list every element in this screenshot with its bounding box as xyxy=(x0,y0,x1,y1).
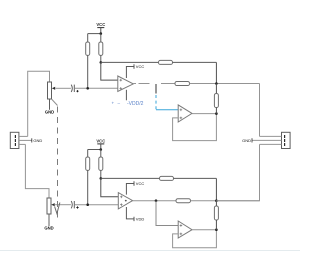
pin marks J2 xyxy=(284,135,286,146)
label VCC at U1A xyxy=(134,64,144,69)
blue edit text (net label being edited) xyxy=(112,101,144,108)
svg-text:GND: GND xyxy=(44,226,53,231)
mechanical link (dual pot, dashed) xyxy=(52,99,58,106)
wire right connector pin3 down to output rail ch2 xyxy=(216,144,259,200)
center dot U1B xyxy=(125,200,127,202)
capacitor C2 xyxy=(71,201,74,208)
wire bias rail ch2 xyxy=(101,177,160,179)
wire R1 top stub xyxy=(87,34,89,42)
wire vertical resistor top stub ch2 xyxy=(215,201,217,206)
op-amp U1B ch2 xyxy=(118,193,132,209)
wire input pot ch2 xyxy=(25,144,49,198)
wire bias rail ch1 xyxy=(101,61,159,63)
wire R2 top stub xyxy=(100,34,102,42)
wire J2 pin1 xyxy=(260,135,282,137)
resistor R9 (vertical ch2) xyxy=(214,206,218,220)
wire top of divider ch2 xyxy=(88,149,101,151)
wire corner down to output rail ch2 xyxy=(215,178,217,200)
output rail ch2 xyxy=(133,200,176,202)
output rail ch1 right part xyxy=(190,83,260,85)
label VCC at U1B xyxy=(134,181,144,186)
wire J2 pin3 xyxy=(260,143,282,145)
resistor R4 (vertical ch1) xyxy=(214,94,218,108)
wire R7 top stub xyxy=(100,150,102,158)
GND flag right xyxy=(242,138,252,143)
svg-text:-VDD/2: -VDD/2 xyxy=(127,101,144,107)
power symbol VCC (top, channel 1) xyxy=(96,22,105,33)
power pin bottom U1A xyxy=(125,90,127,101)
selected wire (blue dashed) xyxy=(155,95,157,110)
wire top of divider ch1 xyxy=(88,33,101,35)
resistor R6 (left divider ch2) xyxy=(86,157,90,170)
svg-text:VCC: VCC xyxy=(96,22,105,27)
resistor R1 (left divider ch1) xyxy=(86,42,90,55)
junction tee to buffer ch2 xyxy=(155,199,158,202)
wire vertical resistor bottom stub ch1 xyxy=(215,108,217,114)
junction cap line / R1 ch1 xyxy=(86,87,89,90)
input marks U2B xyxy=(180,224,183,227)
wire J2 pin2 to GND flag xyxy=(252,139,281,141)
label VDD at U1B xyxy=(134,217,144,222)
selected wire to buffer + input (blue) xyxy=(156,109,178,111)
selected wire stub (dark) xyxy=(155,84,157,94)
input marks U1B xyxy=(120,196,123,199)
wire J1 pin3 xyxy=(19,143,26,145)
op-amp U2B buffer ch2 xyxy=(178,221,192,238)
wire cap to op-amp - ch1 xyxy=(74,87,117,89)
output wire U2B xyxy=(192,229,216,231)
potentiometer RP1b xyxy=(47,198,51,214)
wire R1 bottom to cap line xyxy=(87,55,89,88)
svg-text:VCC: VCC xyxy=(136,181,145,186)
wire wiper to cap ch1 xyxy=(56,87,71,89)
wire wiper to cap ch2 xyxy=(55,204,71,206)
svg-text:GND: GND xyxy=(45,110,54,115)
input marks U2A xyxy=(180,109,183,112)
output rail ch1 (dash gaps near selected wire) xyxy=(133,83,175,85)
svg-text:GND: GND xyxy=(33,138,42,143)
wire tee to buffer + input ch2 xyxy=(156,201,178,226)
wire pot bottom stub ch1 xyxy=(49,99,51,110)
wire bias rail ch1 right xyxy=(173,61,217,63)
resistor R7 (right divider ch2) xyxy=(99,157,103,170)
wire bias to op-amp + ch2 xyxy=(101,178,119,196)
output wire U2A xyxy=(192,113,216,115)
junction output rail / vertical resistor ch1 xyxy=(215,82,218,85)
svg-text:GND: GND xyxy=(242,138,251,143)
op-amp U2A buffer ch1 xyxy=(178,105,192,122)
wire vertical resistor top stub ch1 xyxy=(215,84,217,94)
wire J1 pin1 xyxy=(19,135,28,137)
svg-text:+: + xyxy=(112,101,115,106)
resistor R10 (horizontal on output rail ch2) xyxy=(176,199,191,203)
polarity mark C1 xyxy=(76,90,78,92)
wire R2 bottom stub xyxy=(100,55,102,62)
faint separator bottom xyxy=(0,250,300,252)
junction divider ch2 xyxy=(100,177,103,180)
pin marks J1 xyxy=(14,135,16,146)
wire output to right connector ch1 xyxy=(259,84,261,137)
wire cap to op-amp - ch2 xyxy=(74,204,118,206)
wire pot bottom stub ch2 xyxy=(48,214,50,226)
wire bias rail ch2 right xyxy=(174,177,217,179)
GND flag left xyxy=(32,138,43,143)
junction at VCC stem ch1 xyxy=(100,32,103,35)
feedback loop U2B xyxy=(173,230,217,248)
wire R6 top stub xyxy=(87,150,89,158)
resistor R8 (horizontal ch2) xyxy=(160,176,174,180)
wire corner down to output rail ch1 xyxy=(215,62,217,83)
svg-text:VCC: VCC xyxy=(96,139,105,144)
svg-text:VDD: VDD xyxy=(136,217,145,222)
wire R7 bottom stub xyxy=(100,170,102,178)
connector J1 (left) xyxy=(10,132,19,148)
wire bias to op-amp + ch1 xyxy=(101,62,118,80)
resistor R5 (horizontal on output rail ch1) xyxy=(175,82,190,86)
wiper arrow RP1a xyxy=(52,87,55,90)
potentiometer RP1a xyxy=(48,82,52,99)
input marks U1A xyxy=(120,79,123,82)
junction output rail / vertical resistor ch2 xyxy=(215,199,218,202)
capacitor C1 xyxy=(71,85,74,92)
power pin top U1A xyxy=(126,67,133,79)
resistor R2 (right divider ch1) xyxy=(99,42,103,55)
svg-text:VCC: VCC xyxy=(136,64,145,69)
power pin bottom U1B xyxy=(126,207,133,219)
svg-text:–: – xyxy=(118,101,121,106)
output rail ch2 right part xyxy=(191,200,260,202)
wire vertical resistor bottom stub ch2 xyxy=(215,220,217,230)
junction divider ch1 xyxy=(100,61,103,64)
junction U2B output ch2 xyxy=(215,228,218,231)
wire input pot ch1 xyxy=(28,71,50,136)
junction cap line / R6 ch2 xyxy=(86,203,89,206)
junction U2A output ch1 xyxy=(215,112,218,115)
junction at VCC stem ch2 xyxy=(100,148,103,151)
polarity mark C2 xyxy=(76,206,78,208)
wiper arrow RP1b xyxy=(51,203,54,206)
power symbol VCC (channel 2) xyxy=(96,139,105,150)
op-amp U1A ch1 xyxy=(118,76,134,91)
feedback loop U2A xyxy=(173,114,217,141)
resistor R3 (horizontal ch1) xyxy=(159,60,173,64)
wire J1 pin2 to GND flag xyxy=(19,139,32,141)
connector J2 (right) xyxy=(282,132,291,148)
power pin top U1B xyxy=(126,184,133,195)
wire R6 bottom to cap line xyxy=(87,170,89,204)
